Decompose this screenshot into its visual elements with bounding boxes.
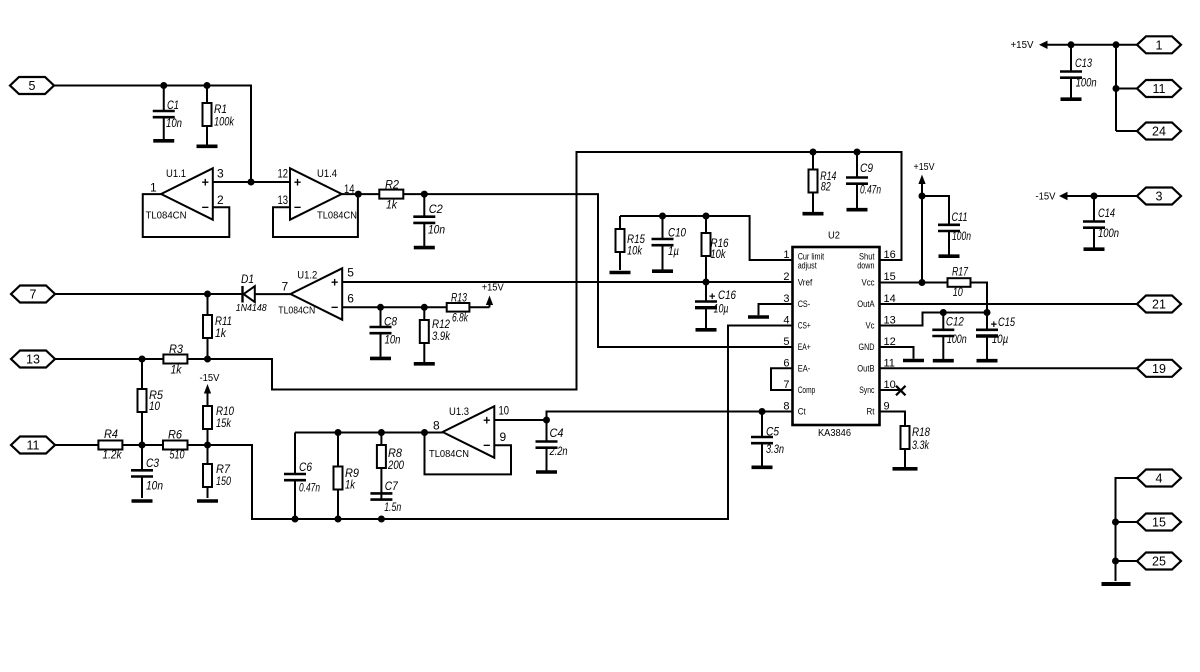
svg-text:R6: R6: [168, 430, 183, 442]
wire connector7 to D1: [55, 293, 243, 295]
connector 19: [1137, 360, 1181, 377]
svg-text:+15V: +15V: [482, 283, 504, 294]
wire oscillator top rail: [295, 432, 443, 434]
ground: [748, 315, 769, 319]
svg-text:Vref: Vref: [798, 278, 813, 289]
wire R3 to shutdown loop: [188, 152, 902, 390]
wire U2 pin6-pin7 loop: [771, 368, 793, 390]
svg-text:10n: 10n: [385, 335, 401, 347]
capacitor C6: [284, 433, 320, 520]
svg-text:9: 9: [500, 430, 507, 444]
svg-text:TL084CN: TL084CN: [317, 210, 357, 222]
svg-text:C8: C8: [384, 317, 398, 329]
svg-text:1k: 1k: [171, 365, 183, 377]
svg-text:R9: R9: [345, 468, 360, 480]
svg-text:1: 1: [1156, 38, 1163, 52]
wire connector4 bus: [1116, 478, 1138, 581]
resistor R18: [901, 426, 931, 467]
svg-text:C10: C10: [668, 228, 687, 240]
capacitor C9: [846, 152, 881, 208]
svg-text:C7: C7: [385, 481, 399, 493]
supply -15V: [1036, 192, 1139, 203]
capacitor C2: [413, 194, 445, 246]
svg-text:−: −: [331, 300, 338, 314]
svg-text:200: 200: [387, 460, 404, 472]
wire U2 pin14 OutA to connector 21: [880, 303, 1138, 305]
svg-text:0.47n: 0.47n: [860, 185, 881, 197]
wire to connector 15: [1116, 521, 1138, 523]
resistor R2: [379, 179, 403, 211]
svg-text:12: 12: [278, 166, 289, 180]
junction: [1112, 519, 1119, 526]
svg-text:5: 5: [29, 79, 36, 93]
supply +15V: [1011, 40, 1139, 51]
svg-text:R4: R4: [104, 429, 118, 441]
resistor R1: [203, 86, 236, 145]
svg-text:5: 5: [783, 336, 789, 348]
wire U2 pin13 Vc: [880, 313, 988, 326]
junction: [335, 429, 342, 436]
ground: [893, 467, 918, 471]
resistor R10: [203, 406, 235, 445]
connector 15: [1137, 514, 1181, 531]
connector 3: [1137, 188, 1181, 205]
junction: [919, 193, 926, 200]
svg-text:+: +: [709, 291, 715, 303]
svg-text:10µ: 10µ: [992, 334, 1009, 346]
wire U1.2 pin5 to U2 Vref: [342, 281, 792, 283]
svg-text:24: 24: [1152, 125, 1166, 139]
svg-text:KA3846: KA3846: [818, 427, 851, 439]
svg-text:1k: 1k: [386, 200, 398, 212]
ground: [847, 208, 868, 212]
svg-text:10: 10: [499, 404, 510, 418]
svg-text:3.9k: 3.9k: [432, 331, 451, 343]
svg-text:Vcc: Vcc: [862, 278, 875, 289]
ground: [1084, 247, 1105, 251]
wire +15V to C11: [922, 196, 949, 225]
svg-text:100n: 100n: [1076, 78, 1097, 90]
svg-text:+: +: [991, 319, 997, 331]
wire U1.4 feedback loop: [273, 194, 358, 237]
svg-text:21: 21: [1152, 298, 1166, 312]
svg-text:C11: C11: [952, 212, 968, 224]
svg-text:1: 1: [150, 181, 157, 195]
svg-text:U1.2: U1.2: [297, 269, 317, 281]
svg-text:R15: R15: [627, 234, 646, 246]
svg-text:6: 6: [347, 291, 354, 305]
wire U2 pin12 GND: [880, 347, 914, 359]
ground: [1061, 97, 1082, 101]
svg-text:C14: C14: [1098, 208, 1115, 220]
svg-text:OutA: OutA: [857, 299, 875, 310]
svg-text:25: 25: [1152, 555, 1166, 569]
svg-text:1: 1: [783, 249, 789, 261]
wire U2 pin11 OutB to connector 19: [880, 367, 1138, 369]
wire to connector 25: [1116, 560, 1138, 562]
junction: [377, 304, 384, 311]
resistor R15: [616, 216, 646, 270]
wire connector5 to node3-12: [54, 86, 251, 183]
svg-text:+: +: [331, 276, 338, 290]
svg-text:+: +: [202, 176, 209, 190]
svg-text:Rt: Rt: [867, 407, 875, 418]
wire R2 to EA+ (line B): [403, 194, 792, 347]
wire Vref rail to pin1: [620, 216, 793, 260]
ground: [536, 470, 557, 474]
supply +15V: [914, 162, 935, 283]
wire R4 to R6: [122, 444, 163, 446]
junction: [543, 417, 550, 424]
wire connector13 to R3: [55, 358, 163, 360]
svg-text:R2: R2: [385, 179, 400, 191]
svg-text:6.8k: 6.8k: [452, 313, 469, 325]
svg-text:C13: C13: [1075, 58, 1092, 70]
wire U1.4 output: [342, 193, 380, 195]
svg-text:down: down: [857, 261, 874, 271]
ground: [370, 357, 391, 361]
wire U1.3 feedback loop: [425, 433, 512, 475]
svg-text:−: −: [294, 200, 301, 214]
svg-text:CS-: CS-: [798, 299, 811, 310]
svg-text:150: 150: [216, 476, 231, 488]
svg-text:0.47n: 0.47n: [299, 483, 320, 495]
svg-text:−: −: [202, 200, 209, 214]
resistor R11: [203, 294, 232, 359]
ground: [132, 499, 153, 503]
junction: [335, 516, 342, 523]
ground: [414, 246, 435, 250]
resistor R4: [98, 429, 122, 462]
op-amp U1.2: [278, 266, 354, 320]
svg-text:Ct: Ct: [798, 407, 806, 418]
svg-text:10: 10: [149, 401, 161, 413]
svg-text:U1.3: U1.3: [449, 406, 469, 418]
op-amp U1.3: [429, 404, 509, 461]
svg-text:100n: 100n: [1098, 228, 1119, 240]
svg-text:CS+: CS+: [798, 321, 811, 332]
wire U2 pin15 Vcc: [880, 282, 948, 284]
svg-text:R17: R17: [952, 267, 968, 279]
junction node A: [248, 179, 255, 186]
svg-text:R8: R8: [388, 448, 403, 460]
junction: [1112, 558, 1119, 565]
capacitor C16 (electrolytic): [695, 282, 737, 328]
connector 1: [1137, 36, 1181, 53]
svg-text:7: 7: [30, 288, 37, 302]
svg-text:2: 2: [217, 193, 224, 207]
svg-text:U1.1: U1.1: [166, 168, 186, 180]
junction: [292, 516, 299, 523]
svg-text:10: 10: [953, 287, 963, 299]
svg-text:1k: 1k: [215, 328, 227, 340]
junction: [703, 279, 710, 286]
svg-text:C4: C4: [550, 428, 564, 440]
connector 25: [1137, 553, 1181, 570]
svg-text:TL084CN: TL084CN: [429, 448, 469, 460]
svg-text:82: 82: [821, 182, 831, 194]
svg-text:5: 5: [347, 266, 354, 280]
svg-text:Vc: Vc: [866, 321, 875, 332]
svg-text:3: 3: [1156, 190, 1163, 204]
junction: [940, 309, 947, 316]
junction: [810, 149, 817, 156]
ground: [977, 359, 998, 363]
svg-text:TL084CN: TL084CN: [278, 305, 315, 317]
supply -15V: [200, 373, 220, 406]
wire to connector 24: [1116, 130, 1137, 132]
wire U1.1 feedback loop: [143, 194, 230, 237]
resistor R5: [138, 359, 164, 445]
svg-text:7: 7: [282, 280, 289, 294]
svg-text:10n: 10n: [166, 118, 182, 130]
svg-text:15: 15: [884, 271, 896, 283]
svg-text:-15V: -15V: [1036, 192, 1056, 203]
wire bottom rail junctions: [294, 518, 296, 520]
svg-text:C1: C1: [167, 100, 179, 112]
svg-text:10k: 10k: [627, 246, 643, 258]
junction: [378, 429, 385, 436]
svg-text:3: 3: [217, 166, 224, 180]
connector 4: [1137, 470, 1181, 487]
wire +15V bus vertical: [1115, 45, 1117, 131]
connector 5: [10, 77, 54, 94]
junction: [703, 213, 710, 220]
svg-text:1.2k: 1.2k: [103, 450, 123, 462]
capacitor C14: [1083, 196, 1119, 248]
svg-text:C9: C9: [860, 163, 874, 175]
ground: [696, 328, 717, 332]
svg-text:GND: GND: [859, 342, 875, 353]
no-connect X on Sync: [896, 386, 906, 396]
wire R6 to CS+ (bottom rail): [188, 326, 793, 520]
svg-text:-15V: -15V: [200, 373, 220, 384]
svg-text:11: 11: [1153, 82, 1166, 96]
svg-text:C16: C16: [718, 290, 737, 302]
svg-text:OutB: OutB: [857, 364, 874, 375]
connector 24: [1137, 123, 1181, 140]
junction: [659, 213, 666, 220]
ground: [197, 145, 218, 149]
junction: [204, 82, 211, 89]
svg-text:13: 13: [26, 353, 40, 367]
junction: [1113, 85, 1120, 92]
svg-text:R3: R3: [169, 344, 184, 356]
wire U1.1 pin3 to U1.4 pin12: [213, 181, 290, 183]
capacitor C8: [370, 307, 401, 357]
ground: [939, 254, 960, 258]
capacitor C4: [536, 420, 568, 471]
svg-text:4: 4: [783, 315, 789, 327]
connector 11: [11, 437, 55, 454]
svg-text:Sync: Sync: [859, 385, 874, 396]
svg-text:3.3n: 3.3n: [766, 444, 784, 456]
ground: [752, 465, 773, 469]
capacitor C15 (electrolytic): [976, 313, 1015, 360]
op-amp U1.4: [278, 166, 358, 221]
junction: [378, 516, 385, 523]
capacitor C3: [131, 445, 163, 498]
resistor R8: [377, 433, 405, 494]
resistor R16: [702, 216, 730, 282]
junction: [1068, 41, 1075, 48]
svg-text:R1: R1: [214, 104, 227, 116]
wire U2 pin3 CS- to ground: [759, 304, 793, 315]
op-amp U1.1: [146, 166, 225, 221]
svg-text:R18: R18: [912, 427, 931, 439]
svg-text:3.3k: 3.3k: [912, 440, 930, 452]
svg-text:+: +: [294, 176, 301, 190]
svg-text:15k: 15k: [216, 418, 232, 430]
wire U2 pin8 Ct stub: [762, 411, 793, 413]
junction: [919, 279, 926, 286]
resistor R3: [163, 344, 187, 377]
junction: [984, 309, 991, 316]
svg-text:10µ: 10µ: [714, 304, 729, 316]
junction: [160, 82, 167, 89]
svg-text:100n: 100n: [952, 231, 971, 243]
ground: [652, 269, 673, 273]
ground: [903, 359, 924, 363]
capacitor C11: [938, 212, 971, 255]
diode D1: [236, 274, 267, 314]
capacitor C13: [1060, 45, 1097, 98]
ground: [610, 271, 631, 275]
resistor R9: [334, 433, 360, 520]
wire R13 to +15V: [469, 306, 489, 308]
svg-text:R12: R12: [432, 319, 451, 331]
svg-text:C2: C2: [429, 204, 444, 216]
junction: [204, 291, 211, 298]
wire U1.3 pin10 to Ct rail: [494, 412, 792, 421]
svg-text:−: −: [483, 438, 490, 452]
junction: [759, 408, 766, 415]
svg-text:R7: R7: [216, 464, 231, 476]
svg-text:8: 8: [433, 419, 440, 433]
junction: [421, 191, 428, 198]
junction: [1091, 193, 1098, 200]
supply +15V: [482, 283, 504, 308]
svg-text:1.5n: 1.5n: [384, 502, 401, 514]
svg-text:4: 4: [1156, 472, 1163, 486]
resistor R6: [163, 430, 188, 462]
resistor R7: [203, 445, 231, 498]
svg-text:C5: C5: [766, 427, 780, 439]
ground: [1102, 582, 1131, 586]
svg-text:+15V: +15V: [1011, 40, 1034, 51]
ground: [803, 212, 824, 216]
capacitor C1: [153, 86, 182, 140]
wire D1 to U1.2 output: [255, 293, 291, 295]
svg-text:16: 16: [884, 249, 896, 261]
svg-text:510: 510: [170, 450, 185, 462]
svg-text:10k: 10k: [711, 249, 727, 261]
svg-text:C3: C3: [146, 458, 160, 470]
svg-text:C6: C6: [299, 462, 313, 474]
capacitor C7: [370, 481, 401, 514]
junction: [204, 356, 211, 363]
connector 21: [1137, 296, 1181, 313]
svg-text:1N4148: 1N4148: [236, 303, 267, 314]
capacitor C5: [751, 412, 784, 466]
junction: [139, 356, 146, 363]
wire R17 to Vc node: [971, 283, 988, 313]
svg-text:U2: U2: [828, 229, 840, 241]
svg-text:+15V: +15V: [914, 162, 935, 173]
connector 13: [11, 351, 55, 368]
svg-text:+: +: [483, 414, 490, 428]
wire connector11 to R4: [55, 444, 98, 446]
svg-text:2: 2: [783, 271, 789, 283]
svg-text:R11: R11: [215, 316, 232, 328]
svg-text:C12: C12: [946, 317, 965, 329]
junction: [139, 442, 146, 449]
junction: [421, 429, 428, 436]
svg-text:C15: C15: [998, 317, 1015, 329]
svg-text:10n: 10n: [428, 225, 445, 237]
svg-text:100k: 100k: [214, 117, 235, 129]
svg-text:R13: R13: [451, 293, 467, 305]
wire U1.2 pin6 line: [342, 306, 447, 308]
IC U2 KA3846: [783, 229, 895, 439]
svg-text:19: 19: [1152, 362, 1166, 376]
ground: [197, 499, 218, 503]
junction: [204, 442, 211, 449]
ground: [933, 359, 954, 363]
resistor R17: [948, 267, 971, 300]
capacitor C10: [652, 216, 687, 270]
svg-text:100n: 100n: [947, 334, 967, 346]
svg-text:TL084CN: TL084CN: [146, 210, 187, 222]
svg-text:1µ: 1µ: [668, 246, 679, 258]
junction: [355, 191, 362, 198]
junction: [854, 149, 861, 156]
capacitor C12: [932, 313, 966, 360]
svg-text:EA+: EA+: [798, 342, 811, 353]
resistor R13: [447, 293, 470, 325]
wire U2 pin9 Rt: [880, 412, 906, 427]
connector 7: [11, 286, 55, 303]
svg-text:D1: D1: [241, 274, 254, 286]
svg-text:Comp: Comp: [798, 385, 816, 396]
resistor R12: [420, 307, 451, 362]
svg-text:U1.4: U1.4: [317, 168, 337, 180]
wire U2 pin10 Sync stub: [880, 389, 901, 391]
wire to connector 11: [1116, 88, 1137, 90]
svg-text:EA-: EA-: [798, 364, 811, 375]
junction: [421, 304, 428, 311]
connector 11 right: [1137, 80, 1181, 97]
svg-text:2.2n: 2.2n: [549, 446, 568, 458]
ground: [153, 139, 174, 143]
junction: [1113, 41, 1120, 48]
svg-text:R10: R10: [216, 406, 235, 418]
svg-text:15: 15: [1152, 516, 1166, 530]
svg-text:13: 13: [278, 193, 289, 207]
svg-text:1k: 1k: [345, 480, 356, 492]
svg-text:10n: 10n: [146, 481, 163, 493]
svg-text:11: 11: [27, 439, 40, 453]
resistor R14: [809, 152, 837, 212]
ground: [414, 362, 435, 366]
svg-text:adjust: adjust: [798, 261, 817, 271]
